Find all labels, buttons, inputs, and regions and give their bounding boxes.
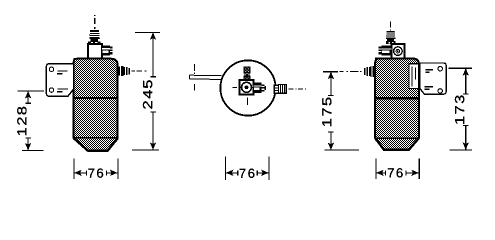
center port hatched cap (middle view)	[244, 67, 250, 73]
bracket slot marks lower (right view)	[424, 86, 433, 88]
center crosshair dashes (middle view)	[232, 86, 237, 88]
center barb fitting right (middle view)	[254, 83, 267, 94]
bracket hole upper (right view)	[438, 67, 442, 71]
bracket slot marks lower (left view)	[58, 88, 68, 90]
right stub collar at circle edge (middle view)	[274, 85, 278, 93]
side port stub on body right (left view)	[118, 66, 130, 76]
drier body cylinder (right view)	[375, 59, 419, 150]
right stub centerline dash-dot (middle view)	[289, 88, 307, 90]
mounting bracket (left view)	[46, 64, 73, 96]
body chamfer line (right view)	[375, 137, 419, 139]
dimension text 175	[322, 98, 331, 126]
dimension 245 (left view)	[132, 32, 160, 149]
body top edge line (left view)	[74, 58, 88, 60]
threaded inlet stub (left view)	[89, 30, 100, 39]
mounting bracket plate (right view)	[420, 63, 446, 94]
sight glass block (right view)	[391, 44, 404, 59]
center port hatched base (middle view)	[244, 76, 250, 80]
centerline above top fitting (right view)	[390, 22, 392, 31]
sight glass ring (right view)	[394, 47, 403, 56]
dimension text 76 left	[88, 169, 94, 178]
striped collar of left fitting (right view)	[378, 47, 381, 55]
side barb fitting right of block (left view)	[102, 45, 113, 55]
threaded inlet stub (right view)	[386, 31, 396, 39]
body divider weld line (right view)	[375, 97, 419, 99]
dimension text 76 middle	[240, 169, 246, 178]
center port ring (middle view)	[242, 82, 252, 92]
dimension 173 (right view)	[449, 68, 473, 150]
body divider weld line (left view)	[74, 97, 118, 99]
dimension 76 (left view)	[74, 158, 118, 179]
bracket tab overlapping body (right view)	[409, 64, 419, 89]
bracket slot marks upper (right view)	[425, 69, 432, 71]
drier body cylinder (left view)	[74, 59, 118, 151]
right stub threads (middle view)	[279, 85, 287, 94]
dimension text 173	[455, 95, 464, 123]
collar under stub (right view)	[386, 41, 396, 44]
left port stub on body (right view)	[364, 66, 374, 77]
body chamfer line (left view)	[74, 137, 118, 139]
dimension 175 (right view)	[323, 72, 359, 150]
left port centerline dash-dot (right view)	[340, 71, 362, 73]
dimension text 76 right	[388, 168, 394, 177]
body top edge line (right view)	[375, 58, 390, 60]
stub neck (right view)	[387, 39, 394, 41]
left banded fitting from block (right view)	[382, 46, 392, 56]
dimension text 245	[143, 80, 152, 108]
fitting block (left view)	[88, 44, 102, 59]
dimension 76 (right view)	[376, 158, 419, 179]
dimension text 128	[17, 107, 26, 135]
center port neck (middle view)	[245, 73, 249, 76]
stub neck (left view)	[91, 39, 99, 42]
bracket hole lower (left view)	[49, 88, 53, 92]
bracket slot marks upper (left view)	[58, 70, 68, 72]
collar nut under stub (left view)	[88, 41, 100, 44]
bracket hole upper (left view)	[49, 67, 53, 71]
tube end centerline dash-dot (middle view)	[193, 64, 195, 90]
centerline above top fitting (left view)	[94, 15, 96, 29]
top view circle (middle view)	[220, 60, 275, 115]
tube to left (middle view)	[190, 75, 222, 79]
dimension 76 (middle view)	[225, 157, 269, 180]
center port flange block (middle view)	[239, 80, 253, 94]
side port centerline dash-dot (left view)	[131, 70, 146, 72]
dimension 128 (left view)	[18, 91, 45, 150]
bracket hole lower (right view)	[438, 89, 442, 93]
